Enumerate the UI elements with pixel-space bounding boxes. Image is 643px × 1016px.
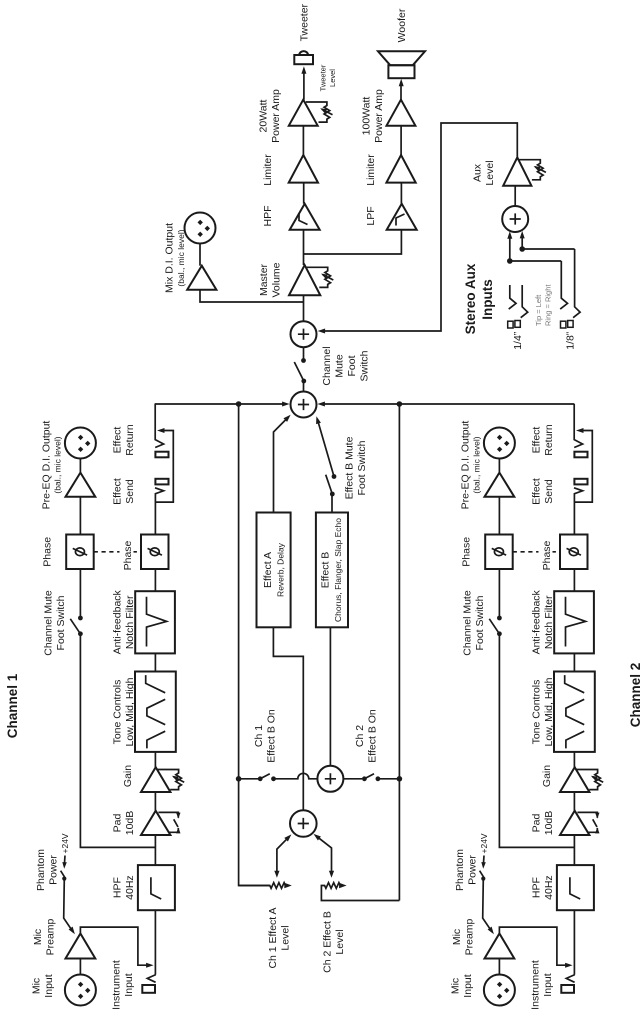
- switch: Channel Mute Foot Switch (Channel 2): [489, 616, 502, 637]
- label Anti-feedback Notch Filter: [112, 589, 137, 654]
- svg-text:Limiter: Limiter: [365, 154, 377, 186]
- label Tweeter Level: [319, 64, 338, 91]
- svg-text:Level: Level: [484, 160, 496, 185]
- svg-text:1/4”: 1/4”: [512, 331, 524, 350]
- svg-text:100Watt: 100Watt: [361, 97, 373, 136]
- svg-text:Level: Level: [328, 69, 337, 87]
- wire: mix bus from channel 2 up into sum: [317, 402, 574, 407]
- connector J: 1/4 inch stereo aux jack: [508, 285, 528, 328]
- svg-text:Effect B: Effect B: [320, 552, 332, 589]
- switch: phantom power switch (Channel 1): [61, 871, 67, 881]
- wire: send/return normalled bypass loop: [155, 428, 173, 502]
- switch: Ch 2 Effect B On: [343, 774, 399, 782]
- wire: Notch to Phase: [154, 569, 156, 591]
- svg-text:Woofer: Woofer: [396, 8, 408, 42]
- svg-text:Preamp: Preamp: [464, 918, 476, 955]
- svg-text:Preamp: Preamp: [45, 918, 57, 955]
- svg-text:Notch Filter: Notch Filter: [124, 595, 136, 649]
- switch: Ch 1 Effect B On: [239, 774, 276, 782]
- node: aux summing node: [291, 321, 317, 347]
- wire: Pad to Gain: [154, 792, 156, 811]
- block: Effect A (Reverb, Delay): [257, 513, 291, 628]
- node: master summing node: [291, 392, 317, 418]
- label Limiter (woofer chain): [365, 154, 377, 186]
- label Woofer: [396, 8, 408, 42]
- block: Tone Controls Low/Mid/High (Channel 1): [135, 672, 176, 752]
- svg-text:10dB: 10dB: [124, 811, 136, 836]
- wire: left channel aux feed into sum: [507, 231, 561, 261]
- connector J: 1/8 inch stereo aux jack: [560, 249, 580, 328]
- svg-text:LPF: LPF: [365, 206, 377, 225]
- label Tone Controls Low, Mid, High: [531, 677, 556, 746]
- wire: Tone to Notch Filter: [154, 653, 156, 671]
- svg-text:(bal., mic level): (bal., mic level): [176, 229, 186, 286]
- svg-text:Effect B On: Effect B On: [367, 709, 379, 763]
- node: junction aux left: [507, 258, 513, 264]
- svg-text:40Hz: 40Hz: [124, 875, 136, 900]
- connector J: Effect Send jack (Channel 2): [574, 479, 587, 485]
- svg-text:Anti-feedback: Anti-feedback: [112, 589, 124, 654]
- svg-text:1/8”: 1/8”: [565, 331, 577, 350]
- block: Anti-feedback Notch Filter (Channel 1): [135, 591, 175, 653]
- svg-text:Foot: Foot: [346, 355, 358, 376]
- node: effects send summing junction: [290, 810, 317, 837]
- svg-text:Anti-feedback: Anti-feedback: [531, 589, 543, 654]
- svg-text:Pad: Pad: [112, 814, 124, 833]
- wire: Gain to Tone Controls: [573, 752, 575, 767]
- op-amp U: Mic Preamp (Channel 1): [66, 934, 96, 959]
- amplifier: Aux Level with pot: [503, 157, 546, 185]
- label HPF 40Hz: [112, 875, 137, 900]
- wire: Effect B mute to mix sum: [316, 416, 334, 476]
- amplifier: Limiter (woofer chain): [386, 155, 415, 183]
- resistor pot: Ch 2 Effect B Level: [314, 834, 400, 901]
- svg-text:Master: Master: [258, 263, 270, 296]
- label Channel Mute Foot Switch: [462, 590, 487, 656]
- svg-text:Mute: Mute: [334, 354, 346, 378]
- node: junction Ch2 tap / Effect B branch: [397, 776, 403, 782]
- svg-text:Effect: Effect: [112, 478, 124, 505]
- block: HPF 40Hz filter (Channel 1): [138, 865, 175, 910]
- wire: power amp to woofer: [399, 79, 404, 100]
- svg-text:Foot Switch: Foot Switch: [55, 595, 67, 650]
- power symbol: +24V phantom supply: [60, 833, 70, 869]
- switch: Effect B Mute Foot Switch: [326, 474, 337, 512]
- svg-text:Aux: Aux: [472, 163, 484, 182]
- wire: Gain to Tone Controls: [154, 752, 156, 767]
- label Effect B Mute Foot Switch: [344, 436, 369, 499]
- svg-text:Foot Switch: Foot Switch: [474, 595, 486, 650]
- svg-text:Channel: Channel: [321, 346, 333, 385]
- svg-text:Channel Mute: Channel Mute: [43, 590, 55, 656]
- label Gain: [541, 765, 553, 787]
- label Channel Mute Foot Switch (master): [321, 346, 371, 385]
- svg-text:Switch: Switch: [359, 350, 371, 381]
- wire: DI amp to XLR: [199, 244, 201, 266]
- filter: HPF triangle (tweeter chain): [290, 204, 320, 230]
- wire: sum to master mute switch: [303, 383, 305, 392]
- label Effect Send: [112, 478, 137, 505]
- label Phase (main): [539, 540, 554, 571]
- svg-text:Input: Input: [542, 973, 554, 996]
- power symbol: +24V phantom supply: [479, 833, 489, 869]
- block: Phase switch main chain (Channel 2): [560, 535, 588, 570]
- wire: effect return jack to mix bus: [574, 404, 582, 448]
- svg-text:HPF: HPF: [112, 877, 124, 898]
- label HPF (tweeter chain): [262, 206, 274, 227]
- svg-text:Phantom: Phantom: [454, 849, 466, 891]
- amplifier: Master Volume with pot: [289, 265, 333, 295]
- resistor pot: Ch 1 Effect A Level: [239, 834, 292, 888]
- label Mic Input: [31, 974, 56, 997]
- wire: right channel aux feed into sum: [520, 231, 575, 249]
- speaker: Tweeter: [294, 51, 313, 64]
- label 1/4": [512, 331, 524, 350]
- op-amp U: Pre-EQ D.I. driver (Channel 2): [485, 473, 515, 497]
- svg-text:Ch 2: Ch 2: [354, 725, 366, 747]
- block: Effect B (Chorus, Flanger, Slap Echo): [316, 513, 348, 628]
- svg-text:Channel 1: Channel 1: [5, 673, 20, 738]
- svg-text:Mix D.I. Output: Mix D.I. Output: [164, 223, 176, 293]
- wire: pre-EQ tap riser to channel mute switch: [499, 634, 574, 848]
- connector J: Mix D.I. Output XLR: [185, 213, 216, 244]
- wire: phantom feed into preamp: [64, 879, 75, 935]
- block: Anti-feedback Notch Filter (Channel 2): [554, 591, 594, 653]
- block: Phase switch main chain (Channel 1): [141, 535, 169, 570]
- wire: mic XLR to preamp: [79, 959, 81, 975]
- svg-text:Volume: Volume: [271, 262, 283, 297]
- amplifier: Limiter (tweeter chain): [289, 155, 318, 183]
- wire: phase to effect send jack: [574, 488, 583, 535]
- wire: DI amp to XLR: [79, 459, 81, 535]
- wire: ganged phase dashed link: [94, 551, 141, 553]
- wire: Notch to Phase: [573, 569, 575, 591]
- connector J: Effect Send jack (Channel 1): [155, 479, 168, 485]
- wire: LPF to limiter to 100W amp: [400, 126, 402, 204]
- svg-text:Mic: Mic: [450, 978, 462, 994]
- wire: mute switch to DI phase: [79, 569, 81, 618]
- amplifier: Gain stage with level pot (Channel 2): [560, 767, 603, 792]
- wire: mute switch to DI phase: [498, 569, 500, 618]
- connector J: Pre-EQ D.I. Output XLR (Channel 2): [484, 428, 515, 459]
- connector J: Effect Return jack (Channel 1): [155, 452, 168, 458]
- svg-text:Phase: Phase: [122, 540, 134, 570]
- svg-text:Tweeter: Tweeter: [319, 64, 328, 91]
- wire: Effect B sum to Effect B input: [329, 627, 331, 766]
- svg-text:Ring = Right: Ring = Right: [544, 284, 553, 326]
- svg-text:HPF: HPF: [262, 206, 274, 227]
- block: Phase switch DI branch (Channel 2): [485, 535, 513, 570]
- svg-text:Tweeter: Tweeter: [299, 3, 311, 41]
- node: Effect B input summing junction: [317, 766, 343, 792]
- svg-text:Phantom: Phantom: [35, 849, 47, 891]
- wire: instrument input to HPF (Channel 2): [573, 910, 575, 974]
- node: aux input summing node: [502, 206, 528, 232]
- svg-text:Gain: Gain: [541, 765, 553, 787]
- svg-text:20Watt: 20Watt: [258, 99, 270, 132]
- label Channel 1 input section: [111, 960, 136, 1010]
- node: Channel 2 main signal row: [0, 1015, 1, 1016]
- connector J: Mic Input XLR (Channel 2): [484, 975, 515, 1006]
- amplifier: 20 Watt Power Amp with tweeter level pot: [289, 100, 333, 126]
- node: junction Ch2 tap on mix bus: [397, 401, 403, 407]
- svg-text:(bal., mic level): (bal., mic level): [472, 436, 482, 493]
- svg-text:Stereo Aux: Stereo Aux: [463, 263, 478, 334]
- label Pad 10dB: [112, 811, 137, 836]
- switch: Channel Mute Foot Switch (Channel 1): [70, 616, 83, 637]
- label Phase (main): [120, 540, 135, 571]
- label Stereo Aux Inputs: [463, 263, 495, 334]
- label Effect Return: [112, 424, 137, 456]
- wire: effect return jack to mix bus: [155, 404, 163, 448]
- label Tip = Left, Ring = Right: [534, 284, 553, 326]
- svg-text:Phase: Phase: [541, 540, 553, 570]
- wire: Effect B feed with hop over Effect A line: [274, 773, 318, 779]
- svg-text:Return: Return: [124, 424, 136, 456]
- op-amp U: Mix D.I. driver: [187, 266, 216, 290]
- wire: Channel 1 effects tap bus: [239, 404, 270, 886]
- svg-text:Mic: Mic: [451, 929, 463, 945]
- amplifier: 100 Watt Power Amp: [387, 100, 416, 126]
- wire: send/return normalled bypass loop: [574, 428, 592, 502]
- wire: instrument input to HPF (Channel 1): [154, 910, 156, 974]
- speaker: Woofer: [378, 51, 425, 78]
- label Pre-EQ D.I. Output (bal., mic level): [460, 421, 482, 510]
- label Master Volume: [258, 262, 283, 297]
- svg-text:Tone Controls: Tone Controls: [531, 680, 543, 745]
- svg-text:Input: Input: [123, 973, 135, 996]
- wire: Tone to Notch Filter: [573, 653, 575, 671]
- amplifier: Gain stage with level pot (Channel 1): [141, 767, 184, 792]
- wire: mic preamp output joins instrument line: [80, 927, 153, 968]
- svg-text:+24V: +24V: [60, 833, 70, 853]
- label Mix D.I. Output (bal., mic level): [164, 223, 186, 293]
- label LPF (woofer chain): [365, 206, 377, 225]
- svg-text:Mic: Mic: [31, 978, 43, 994]
- wire: phase to effect send jack: [155, 488, 164, 535]
- wire: Pad to Gain: [573, 792, 575, 811]
- wire: limiter to 20W power amp: [302, 126, 304, 155]
- label Aux Level: [472, 160, 497, 185]
- label Ch 2 Effect B On: [354, 709, 379, 763]
- svg-text:Effect: Effect: [531, 478, 543, 505]
- amplifier: Pad 10dB (Channel 1): [141, 811, 181, 835]
- wire: phantom feed into preamp: [483, 879, 494, 935]
- connector J: Mic Input XLR (Channel 1): [65, 975, 96, 1006]
- label Pad 10dB: [531, 811, 556, 836]
- svg-text:Send: Send: [124, 479, 136, 504]
- label Limiter (tweeter chain): [262, 154, 274, 186]
- svg-text:HPF: HPF: [531, 877, 543, 898]
- filter: LPF triangle (woofer chain): [387, 204, 417, 230]
- wire: DI amp to XLR: [498, 459, 500, 535]
- label Mic Input: [450, 974, 475, 997]
- label Phantom Power: [454, 849, 479, 891]
- label Phase (DI branch): [461, 537, 473, 567]
- amplifier: Pad 10dB (Channel 2): [560, 811, 600, 835]
- svg-text:Tone Controls: Tone Controls: [112, 680, 124, 745]
- connector J: Instrument Input 1/4&#8221; jack (Channel 1): [142, 975, 156, 993]
- svg-text:Level: Level: [334, 929, 346, 954]
- node: junction Ch1 tap / Effect B branch: [236, 776, 242, 782]
- svg-text:Pre-EQ D.I. Output: Pre-EQ D.I. Output: [41, 421, 53, 510]
- svg-text:Phase: Phase: [461, 537, 473, 567]
- svg-text:Power Amp: Power Amp: [373, 89, 385, 143]
- wire: ganged phase dashed link: [513, 551, 560, 553]
- svg-text:Power: Power: [48, 855, 60, 885]
- svg-text:Reverb, Delay: Reverb, Delay: [276, 542, 286, 597]
- svg-text:+24V: +24V: [479, 833, 489, 853]
- svg-text:Effect A: Effect A: [262, 552, 274, 588]
- svg-text:Ch 1 Effect A: Ch 1 Effect A: [267, 907, 279, 968]
- node: junction aux right: [519, 246, 525, 252]
- op-amp U: Mic Preamp (Channel 2): [485, 934, 515, 959]
- label 100Watt Power Amp: [361, 89, 386, 143]
- svg-text:Effect B On: Effect B On: [266, 709, 278, 763]
- node: junction Ch1 tap on mix bus: [236, 401, 242, 407]
- svg-text:Channel Mute: Channel Mute: [462, 590, 474, 656]
- switch: phantom power switch (Channel 2): [480, 871, 486, 881]
- block: HPF 40Hz filter (Channel 2): [557, 865, 594, 910]
- op-amp U: Pre-EQ D.I. driver (Channel 1): [66, 473, 96, 497]
- connector J: Pre-EQ D.I. Output XLR (Channel 1): [65, 428, 96, 459]
- label Ch 1 Effect A Level: [267, 907, 292, 968]
- label 20Watt Power Amp: [258, 89, 283, 143]
- wire: mic preamp output joins instrument line: [499, 927, 572, 968]
- label Effect Send: [531, 478, 556, 505]
- svg-text:Power: Power: [467, 855, 479, 885]
- label Ch 1 Effect B On: [253, 709, 278, 763]
- wire: HPF to Pad: [154, 835, 156, 865]
- connector J: Instrument Input 1/4&#8221; jack (Channel 2): [561, 975, 575, 993]
- label Mic Preamp: [451, 918, 476, 955]
- label Gain: [122, 765, 134, 787]
- svg-text:Mic: Mic: [32, 929, 44, 945]
- svg-text:(bal., mic level): (bal., mic level): [53, 436, 63, 493]
- label HPF 40Hz: [531, 875, 556, 900]
- svg-text:Ch 1: Ch 1: [253, 725, 265, 747]
- wire: mic XLR to preamp: [498, 959, 500, 975]
- svg-text:Effect B Mute: Effect B Mute: [344, 436, 356, 499]
- svg-text:Foot Switch: Foot Switch: [356, 440, 368, 495]
- block: Phase switch DI branch (Channel 1): [66, 535, 94, 570]
- label Channel Mute Foot Switch: [43, 590, 68, 656]
- svg-text:Channel 2: Channel 2: [628, 663, 643, 728]
- wire: mute switch to aux sum: [303, 347, 305, 361]
- svg-text:Input: Input: [43, 974, 55, 997]
- wire: aux level output routed to master aux sum: [318, 123, 518, 334]
- svg-text:Chorus, Flanger, Slap Echo: Chorus, Flanger, Slap Echo: [333, 518, 343, 622]
- label Effect Return: [531, 424, 556, 456]
- wire: Channel 2 effects tap bus: [398, 404, 400, 901]
- wire: main mix bus vertical: [155, 403, 287, 405]
- wire: power amp to tweeter: [301, 66, 306, 100]
- svg-text:Phase: Phase: [42, 537, 54, 567]
- svg-text:Power Amp: Power Amp: [270, 89, 282, 143]
- switch: master channel mute foot switch: [294, 358, 306, 383]
- label Tweeter: [299, 3, 311, 41]
- svg-text:Gain: Gain: [122, 765, 134, 787]
- label Pre-EQ D.I. Output (bal., mic level): [41, 421, 63, 510]
- svg-text:Level: Level: [280, 925, 292, 950]
- svg-text:Pre-EQ D.I. Output: Pre-EQ D.I. Output: [460, 421, 472, 510]
- svg-text:Tip = Left: Tip = Left: [534, 294, 543, 326]
- svg-text:Pad: Pad: [531, 814, 543, 833]
- svg-text:Ch 2 Effect B: Ch 2 Effect B: [322, 911, 334, 973]
- svg-text:Send: Send: [543, 479, 555, 504]
- wire: aux sum to aux level: [514, 186, 516, 206]
- label Anti-feedback Notch Filter: [531, 589, 556, 654]
- wire: Mix D.I. tap: [200, 290, 304, 302]
- label Phase (DI branch): [42, 537, 54, 567]
- label Channel 2 input section: [530, 960, 555, 1010]
- svg-text:40Hz: 40Hz: [543, 875, 555, 900]
- wire: pre-EQ tap riser to channel mute switch: [80, 634, 155, 848]
- wire: master volume to HPF, split to LPF: [304, 230, 402, 265]
- svg-text:Inputs: Inputs: [480, 279, 495, 320]
- connector J: Effect Return jack (Channel 2): [574, 452, 587, 458]
- wire: Effect A output to mix sum: [274, 415, 291, 513]
- label Channel 1 heading: [5, 673, 20, 738]
- label Channel 2 heading: [628, 663, 643, 728]
- svg-text:Effect: Effect: [112, 427, 124, 454]
- block: Tone Controls Low/Mid/High (Channel 2): [554, 672, 595, 752]
- svg-text:Input: Input: [462, 974, 474, 997]
- label Ch 2 Effect B Level: [322, 911, 347, 973]
- label Mic Preamp: [32, 918, 57, 955]
- wire: aux sum to master volume: [303, 295, 305, 321]
- svg-text:Effect: Effect: [531, 427, 543, 454]
- svg-text:Limiter: Limiter: [262, 154, 274, 186]
- wire: HPF to limiter: [303, 183, 305, 204]
- svg-text:10dB: 10dB: [543, 811, 555, 836]
- svg-text:Instrument: Instrument: [530, 960, 542, 1010]
- node: Channel 1 main signal row: [0, 1015, 1, 1016]
- label Tone Controls Low, Mid, High: [112, 677, 137, 746]
- label 1/8": [565, 331, 577, 350]
- svg-text:Instrument: Instrument: [111, 960, 123, 1010]
- wire: HPF to Pad: [573, 835, 575, 865]
- wire: effects sum to Effect A input: [273, 627, 303, 810]
- svg-text:Return: Return: [543, 424, 555, 456]
- label Phantom Power: [35, 849, 60, 891]
